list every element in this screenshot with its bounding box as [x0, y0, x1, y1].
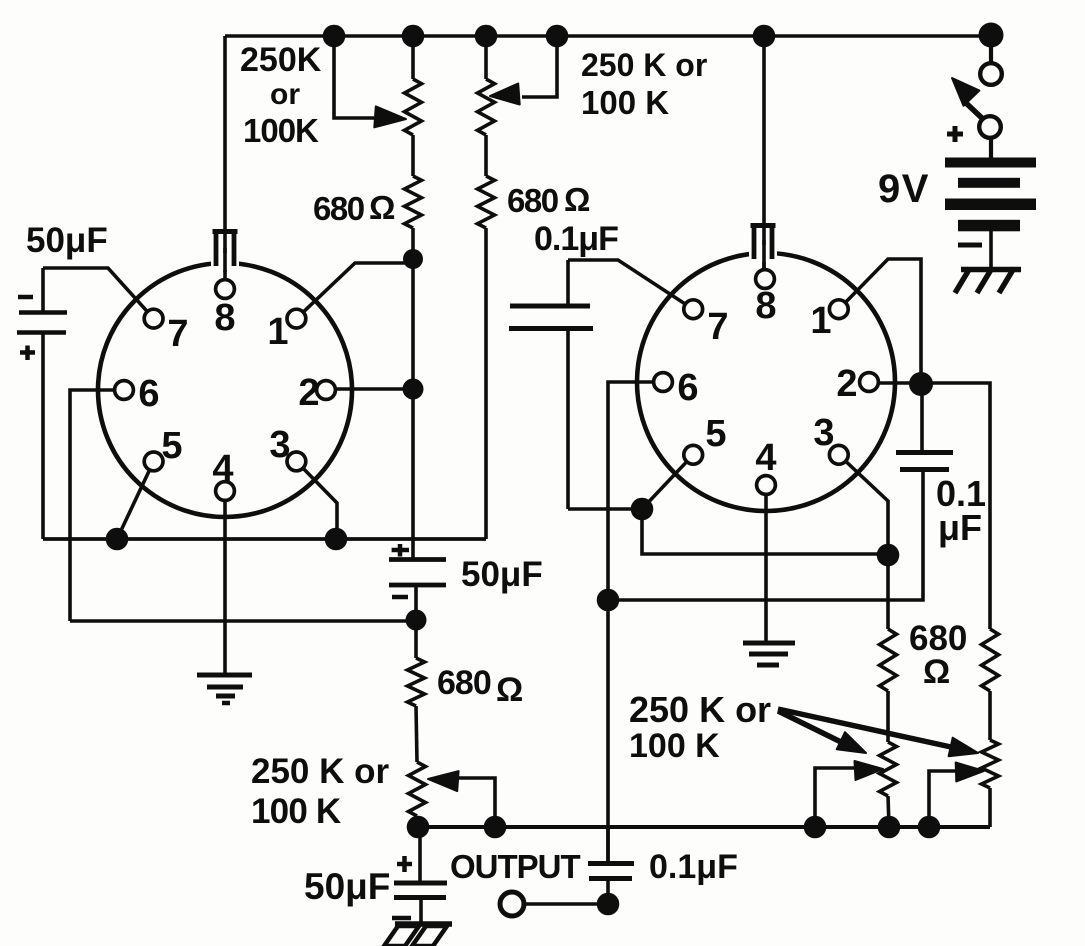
svg-text:100K: 100K — [243, 112, 319, 149]
switch S1 lever arrow — [952, 78, 979, 106]
svg-text:1: 1 — [267, 311, 288, 353]
svg-text:0.1μF: 0.1μF — [649, 848, 738, 886]
svg-text:0.1μF: 0.1μF — [534, 220, 618, 258]
potentiometer R6 250K/100K element — [409, 762, 426, 816]
U2 pin 3 — [829, 445, 848, 464]
svg-text:9V: 9V — [878, 167, 930, 211]
capacitor C4 minus sign — [392, 916, 411, 921]
U1 pin 3 — [287, 452, 306, 471]
wire R3 to R4 — [484, 135, 488, 176]
U1 pin 4 — [216, 482, 235, 501]
node junction R2 / pin1 U1 — [403, 249, 423, 269]
wire junction down — [642, 509, 888, 554]
U2 key notch — [749, 245, 777, 262]
wire R7 to R9 — [886, 691, 890, 742]
wire C2 bottom stub — [566, 331, 570, 509]
R9 wiper arrow — [855, 761, 884, 780]
U2 pin 2 — [860, 373, 879, 392]
svg-text:100 K: 100 K — [251, 792, 341, 831]
capacitor C1 top plate — [19, 310, 67, 315]
svg-text:250K: 250K — [240, 41, 322, 79]
capacitor C1 minus sign — [18, 295, 33, 300]
U1 key notch — [211, 253, 239, 270]
wire U2 pin7 stub — [568, 260, 693, 309]
svg-text:50μF: 50μF — [304, 866, 390, 907]
svg-text:50μF: 50μF — [461, 555, 543, 594]
capacitor C6 top plate — [896, 450, 953, 455]
node junction C3 / R5 / pin6 line — [406, 610, 427, 631]
ground below U2 pin 4 bar3 — [757, 663, 779, 668]
capacitor C1 bottom plate — [17, 330, 66, 335]
battery B1 plate 4 — [958, 220, 1020, 232]
wire R5 to R6 — [416, 706, 417, 762]
potentiometer R9 250K/100K element — [880, 742, 897, 796]
wire bottom output rail — [417, 825, 990, 829]
svg-text:6: 6 — [677, 367, 698, 409]
wire U1 pin5 stub — [117, 461, 154, 539]
U2 pin 8 — [756, 270, 775, 289]
node junction pin2 U1 — [403, 379, 424, 400]
svg-text:6: 6 — [138, 373, 159, 415]
U2 pin 1 — [829, 300, 848, 319]
U2 pin 7 — [684, 300, 703, 319]
ground below U1 pin 4 bar1 — [197, 673, 252, 678]
node junction R7 pot / rail — [878, 816, 901, 839]
svg-text:100 K: 100 K — [581, 84, 669, 121]
chassis ground output slash 1 — [384, 926, 419, 946]
U1 pin 5 — [144, 452, 163, 471]
wire U2 pin8 feed lower segment — [762, 240, 766, 271]
wire U2 pin4 stub — [764, 485, 768, 643]
R6 wiper arrow — [428, 771, 459, 791]
wire C6 top stub — [920, 384, 924, 451]
output terminal — [500, 892, 524, 916]
node junction top rail / R3 wiper — [546, 25, 569, 48]
svg-text:Ω: Ω — [923, 653, 950, 691]
node junction top rail / switch S1 — [979, 23, 1004, 48]
wire junction to R5 — [414, 620, 418, 658]
svg-text:8: 8 — [755, 285, 776, 327]
wire R2 lower — [411, 228, 415, 560]
wire R6 wiper link — [458, 778, 495, 827]
wire U1 pin4 stub — [223, 491, 227, 673]
battery B1 plate 1 — [945, 158, 1036, 168]
node junction C2 / U2 pin5 — [631, 498, 654, 521]
op-amp U1 socket body — [98, 263, 352, 517]
capacitor C1 plus sign — [20, 350, 35, 355]
chassis ground output slash 2 — [412, 926, 447, 946]
wire pin6-line horizontal — [70, 619, 416, 623]
capacitor C3 top plate — [389, 557, 446, 562]
U1 pin 6 — [115, 381, 134, 400]
svg-text:8: 8 — [214, 297, 235, 339]
wire R10 bottom to rail — [988, 788, 992, 827]
capacitor C3 minus sign — [392, 595, 408, 600]
chassis ground below battery slash 1 — [955, 268, 970, 293]
ground below U1 pin 4 bar2 — [207, 685, 243, 690]
U2 pin 6 — [654, 373, 673, 392]
chassis ground output bar — [395, 921, 452, 927]
wire U2 pin1 stub — [839, 259, 921, 384]
wire U1 pin7 stub — [43, 268, 154, 319]
resistor R2 680 ohm — [405, 176, 422, 228]
wire C2 top stub — [566, 260, 570, 304]
wire output terminal link — [525, 902, 608, 906]
node junction U1 pin3 / bus — [325, 528, 348, 551]
node junction U2 pin3 / R7 — [877, 544, 900, 567]
wire battery to ground — [989, 231, 993, 267]
wire R8 upper — [988, 383, 990, 629]
potentiometer R1 250K/100K element — [405, 79, 422, 135]
U1 pin 7 — [144, 309, 163, 328]
switch S1 bottom contact — [979, 116, 1001, 138]
svg-text:680: 680 — [313, 190, 364, 227]
node junction U2 pin2 / C6 — [909, 372, 933, 396]
wire top supply rail — [225, 34, 991, 38]
wire C6 bottom stub — [608, 471, 923, 600]
capacitor C6 bottom plate — [900, 467, 949, 472]
U2 pin 5 — [684, 445, 703, 464]
wire U2 pin5 stub — [642, 455, 693, 509]
wire U2 pin6 stub — [608, 382, 663, 862]
svg-text:680: 680 — [507, 182, 558, 219]
ground below U1 pin 4 bar4 — [222, 701, 230, 706]
R10 select arrow — [778, 709, 951, 747]
wire left socket pin-8 feed — [223, 36, 227, 280]
svg-text:7: 7 — [707, 306, 728, 348]
wire switch to battery B1 — [989, 138, 993, 158]
svg-text:OUTPUT: OUTPUT — [450, 848, 581, 885]
wire R2 branch upper — [411, 36, 415, 79]
ground below U1 pin 4 bar3 — [216, 694, 235, 699]
svg-text:5: 5 — [161, 425, 182, 467]
capacitor C4 plus sign — [397, 862, 412, 867]
svg-text:7: 7 — [167, 313, 188, 355]
wire R6 bottom to rail — [415, 816, 419, 828]
capacitor C5 top plate — [588, 861, 634, 866]
U1 pin 8 — [216, 280, 235, 299]
svg-text:680: 680 — [437, 664, 491, 702]
svg-text:250 K or: 250 K or — [581, 47, 707, 83]
wire R3 branch upper — [484, 36, 488, 79]
potentiometer R10 250K/100K element — [982, 740, 999, 788]
node junction top rail / R2 branch — [402, 25, 425, 48]
svg-text:Ω: Ω — [496, 671, 523, 709]
op-amp U2 socket body — [637, 253, 895, 511]
R10 wiper arrow — [956, 763, 984, 782]
svg-text:4: 4 — [755, 437, 776, 479]
node junction R6 wiper / rail — [484, 816, 507, 839]
node junction R6 bottom / C4 — [407, 816, 430, 839]
capacitor C2 top plate — [510, 304, 590, 309]
resistor R5 680 ohm — [408, 658, 425, 706]
wire U1 pin8 feed lower segment — [223, 248, 227, 272]
resistor R7 680 ohm — [880, 629, 897, 691]
wire C1 bottom to bus — [41, 334, 45, 539]
svg-text:3: 3 — [813, 412, 834, 454]
wire R9 wiper link — [815, 768, 855, 827]
R1 wiper arrow — [374, 106, 406, 127]
wire R9 bottom to rail — [888, 796, 889, 827]
wire R10 wiper link — [929, 771, 956, 827]
node junction top rail / R1 wiper — [323, 25, 346, 48]
svg-text:1: 1 — [810, 300, 831, 342]
svg-text:Ω: Ω — [369, 189, 395, 226]
wire C5 bottom stub — [606, 880, 610, 904]
ground below U2 pin 4 bar2 — [749, 652, 788, 657]
battery B1 minus sign — [958, 243, 982, 248]
svg-text:250 K or: 250 K or — [251, 752, 389, 791]
wire C5 top stub — [606, 827, 610, 862]
wire U1 pin3 stub — [296, 461, 337, 539]
wire C3 to junction — [414, 585, 418, 622]
wire C4 to chassis ground — [419, 898, 423, 922]
node junction R10 wiper / rail — [918, 816, 941, 839]
battery B1 plus sign — [947, 132, 963, 137]
capacitor C2 bottom plate — [509, 326, 593, 331]
wire C2 to junction — [568, 507, 642, 511]
svg-text:or: or — [270, 78, 300, 111]
wire R8 to R10 — [988, 691, 992, 740]
svg-text:2: 2 — [836, 363, 857, 405]
wire left bias bus — [43, 537, 486, 541]
R9 select arrow — [778, 711, 843, 743]
svg-text:50μF: 50μF — [26, 221, 108, 260]
wire U1 pin1 stub — [296, 263, 413, 319]
svg-text:250 K or: 250 K or — [629, 689, 771, 730]
chassis ground below battery bar — [961, 267, 1021, 273]
ground below U2 pin 4 bar1 — [743, 641, 795, 646]
resistor R8 680 ohm — [982, 629, 999, 691]
svg-text:3: 3 — [269, 424, 290, 466]
switch S1 lever — [966, 103, 984, 120]
wire U2 pin2 stub — [869, 381, 988, 385]
svg-text:2: 2 — [298, 372, 319, 414]
node junction U1 pin5 / bus — [106, 528, 129, 551]
wire rail to switch S1 — [989, 36, 993, 64]
wire R4 lower to left bus — [484, 228, 488, 539]
wire C1 top stub — [41, 268, 45, 311]
node junction top rail / U2 pin 8 feed — [753, 25, 776, 48]
svg-text:4: 4 — [212, 448, 233, 490]
node junction top rail / R3 branch — [475, 25, 498, 48]
wire rail to C4 — [418, 827, 422, 882]
node junction R9 wiper / rail — [804, 816, 827, 839]
chassis ground below battery slash 2 — [977, 268, 992, 293]
wire right socket pin-8 feed — [762, 36, 766, 278]
switch S1 top contact — [980, 63, 1002, 85]
svg-text:5: 5 — [705, 413, 726, 455]
svg-text:Ω: Ω — [564, 181, 590, 218]
R3 wiper arrow — [490, 84, 520, 105]
potentiometer R3 250K/100K element — [478, 79, 495, 135]
battery B1 plate 2 — [958, 178, 1020, 188]
wire U2 pin3 stub — [839, 455, 888, 556]
U2 pin 4 — [757, 476, 776, 495]
wire U1 pin6 stub — [70, 390, 124, 621]
U1 pin 2 — [317, 381, 336, 400]
U1 pin 1 — [287, 309, 306, 328]
capacitor C4 bottom plate — [394, 895, 446, 900]
wire R1 wiper link — [334, 36, 374, 118]
wire R7 upper — [886, 555, 890, 629]
capacitor C3 plus sign — [392, 548, 409, 553]
capacitor C4 top plate — [394, 881, 447, 886]
capacitor C3 bottom plate — [389, 583, 446, 588]
svg-text:μF: μF — [938, 507, 982, 548]
battery B1 plate 3 — [945, 199, 1036, 211]
chassis ground below battery slash 3 — [999, 268, 1014, 293]
node junction output / C5 — [597, 893, 620, 916]
wire R1 to R2 — [411, 135, 415, 176]
wire R3 wiper link — [522, 36, 557, 97]
capacitor C5 bottom plate — [589, 876, 632, 881]
resistor R4 680 ohm — [478, 176, 495, 228]
svg-text:100 K: 100 K — [629, 727, 720, 765]
wire U1 pin2 stub — [326, 387, 413, 391]
node junction pin6 line / C6 — [597, 589, 620, 612]
